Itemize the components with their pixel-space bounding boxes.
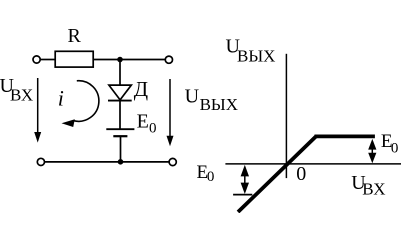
svg-text:ВХ: ВХ <box>362 180 385 199</box>
svg-text:0: 0 <box>296 163 306 185</box>
svg-text:Д: Д <box>134 77 148 101</box>
wire junction to diode <box>119 60 121 86</box>
transfer curve diagonal <box>238 136 316 212</box>
terminal top-right <box>165 56 172 63</box>
dimension arrow E0 right <box>371 141 373 161</box>
terminal top-left <box>33 56 40 63</box>
svg-text:E: E <box>137 110 149 132</box>
terminal bottom-left <box>37 158 44 165</box>
node junction top <box>117 57 123 63</box>
svg-text:ВХ: ВХ <box>10 85 33 104</box>
tick -E0 left <box>233 194 252 196</box>
svg-text:0: 0 <box>149 120 157 136</box>
diode D cathode bar <box>108 100 132 102</box>
diode D anode triangle <box>109 85 131 100</box>
wire battery to bottom <box>120 136 122 162</box>
wire top-left <box>41 59 56 61</box>
arrow U input <box>37 78 39 134</box>
svg-text:ВЫХ: ВЫХ <box>200 95 238 114</box>
svg-text:i: i <box>58 86 64 111</box>
svg-text:0: 0 <box>207 169 215 185</box>
svg-text:0: 0 <box>391 141 399 157</box>
wire bottom <box>45 161 170 163</box>
node junction bottom <box>118 159 124 165</box>
svg-text:ВЫХ: ВЫХ <box>237 47 275 66</box>
battery E0 short plate <box>113 135 127 137</box>
battery E0 long plate <box>106 128 134 130</box>
wire diode to battery <box>119 101 121 130</box>
graph horizontal axis <box>225 163 401 165</box>
dimension arrow E0 left <box>244 167 246 192</box>
svg-text:U: U <box>185 85 200 107</box>
current arc arrow <box>74 81 99 122</box>
resistor R <box>55 51 93 67</box>
svg-text:R: R <box>68 25 82 47</box>
graph vertical axis <box>285 54 287 178</box>
wire top-right <box>93 59 165 61</box>
terminal bottom-right <box>169 158 176 165</box>
arrow U output <box>169 79 171 140</box>
transfer curve flat clamp <box>315 134 375 138</box>
